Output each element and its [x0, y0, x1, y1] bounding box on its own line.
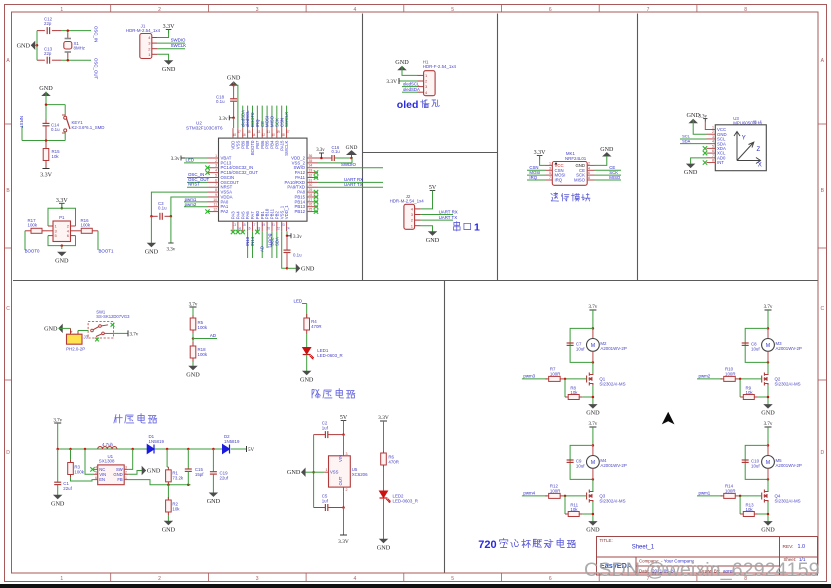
svg-text:P1: P1 [59, 215, 65, 220]
resistor R3 [70, 449, 72, 462]
svg-text:13: 13 [232, 223, 236, 227]
svg-text:27: 27 [309, 198, 313, 202]
svg-text:45: 45 [247, 130, 251, 134]
ground [603, 152, 610, 156]
crystal X1 [67, 33, 69, 39]
mosfet Q1 [592, 362, 594, 374]
node CE [595, 169, 622, 171]
mcu top net bus [242, 106, 244, 129]
section title boost circuit [114, 415, 122, 423]
svg-text:6: 6 [549, 576, 552, 582]
svg-text:3.3V: 3.3V [378, 415, 389, 421]
motor M5 [767, 445, 769, 455]
svg-text:37: 37 [286, 130, 290, 134]
svg-text:3.3V: 3.3V [163, 24, 176, 30]
power 3.3v flag [290, 233, 292, 238]
svg-text:Sheet_1: Sheet_1 [632, 545, 655, 551]
power 3.3v flag on VBAT [181, 157, 208, 159]
svg-text:GND: GND [346, 145, 358, 151]
wire SW to rail [128, 449, 132, 469]
svg-text:SWCLK: SWCLK [171, 43, 187, 48]
capacitor C12 [37, 30, 45, 32]
wire [767, 385, 769, 404]
ground [303, 371, 310, 375]
node SCL [680, 138, 707, 140]
wire [592, 310, 594, 328]
svg-text:MISO: MISO [574, 178, 586, 183]
svg-text:GND: GND [145, 248, 159, 255]
svg-text:10uf: 10uf [751, 346, 760, 351]
svg-text:6: 6 [588, 171, 590, 175]
svg-text:pwm2: pwm2 [699, 374, 711, 379]
wire [767, 502, 769, 521]
wire VSS_2 [318, 158, 352, 163]
svg-text:Z: Z [757, 147, 761, 153]
svg-text:SI2302AI-MS: SI2302AI-MS [775, 498, 801, 503]
svg-text:10k: 10k [172, 506, 180, 511]
svg-text:5: 5 [215, 173, 217, 177]
ground [192, 362, 194, 366]
svg-text:0.1u: 0.1u [158, 206, 167, 211]
power 5V [430, 190, 436, 192]
svg-text:SWDIO: SWDIO [171, 38, 186, 43]
svg-text:OSC_IN: OSC_IN [94, 26, 99, 42]
svg-text:34: 34 [309, 164, 313, 168]
svg-text:UART TX: UART TX [344, 182, 363, 187]
wire VDD_1 decoupling [286, 231, 288, 236]
svg-text:HDR-F-2.54_1x4: HDR-F-2.54_1x4 [423, 64, 457, 69]
svg-text:IRQ: IRQ [529, 175, 537, 180]
wire [48, 236, 76, 246]
wire main rail [58, 448, 148, 450]
svg-text:7: 7 [215, 183, 217, 187]
no-connect PA3 PA4 PA5 PB0 [231, 230, 235, 234]
mosfet Q4 [767, 479, 769, 491]
resistor R2 [167, 485, 169, 500]
svg-text:M: M [591, 460, 595, 466]
svg-text:470R: 470R [388, 459, 399, 464]
wire VDDA [171, 197, 208, 216]
ground [54, 495, 61, 499]
svg-text:HDR-M-2.54_1x4: HDR-M-2.54_1x4 [126, 28, 161, 33]
svg-text:M: M [766, 343, 770, 349]
wire [45, 92, 47, 105]
svg-text:C: C [820, 306, 824, 312]
resistor R17 [25, 230, 31, 232]
svg-text:25: 25 [309, 208, 313, 212]
wire [157, 30, 169, 38]
power 5V [341, 420, 347, 422]
svg-text:SWCLK: SWCLK [284, 140, 289, 155]
svg-text:VIN: VIN [338, 455, 343, 462]
svg-text:2: 2 [158, 576, 161, 582]
svg-text:EN: EN [99, 477, 105, 482]
svg-text:10uf: 10uf [751, 463, 760, 468]
svg-text:GND: GND [162, 66, 176, 73]
svg-text:100R: 100R [725, 371, 736, 376]
svg-text:SI2302AI-MS: SI2302AI-MS [599, 381, 625, 386]
svg-text:100k: 100k [198, 325, 208, 330]
svg-text:0.1u: 0.1u [332, 149, 341, 154]
svg-text:46: 46 [242, 133, 246, 137]
regulator U5 XC6206 [329, 456, 351, 487]
section title transparent module [551, 193, 559, 202]
svg-text:6: 6 [215, 178, 217, 182]
svg-text:22uf: 22uf [220, 475, 229, 480]
svg-text:3.3v: 3.3v [293, 235, 302, 240]
svg-text:pwm2: pwm2 [185, 202, 197, 207]
svg-text:UART TX: UART TX [439, 215, 458, 220]
svg-text:K2-3.6*6.1_SMD: K2-3.6*6.1_SMD [72, 125, 105, 130]
svg-text:4: 4 [712, 140, 714, 144]
svg-text:GND: GND [227, 75, 241, 82]
svg-text:XC6206: XC6206 [352, 472, 368, 477]
svg-text:3: 3 [712, 135, 714, 139]
svg-text:SI2302AI-MS: SI2302AI-MS [775, 381, 801, 386]
svg-text:LED-0603_R: LED-0603_R [393, 498, 418, 503]
svg-text:26: 26 [309, 203, 313, 207]
svg-text:32: 32 [309, 173, 313, 177]
wire [306, 334, 308, 347]
svg-text:41: 41 [267, 130, 271, 134]
svg-text:1: 1 [125, 476, 127, 480]
svg-text:22: 22 [276, 227, 280, 231]
section divider lines [362, 14, 364, 281]
svg-text:5V: 5V [248, 448, 255, 453]
svg-text:17: 17 [252, 223, 256, 227]
svg-text:1: 1 [712, 126, 714, 130]
svg-text:LED: LED [294, 299, 303, 304]
svg-text:4: 4 [354, 576, 357, 582]
svg-text:PA2: PA2 [221, 209, 229, 214]
svg-text:HDR-M-2.54_1x4: HDR-M-2.54_1x4 [390, 199, 425, 204]
node IN13 IN14 [247, 231, 249, 258]
svg-text:GND: GND [600, 147, 614, 153]
wire [157, 54, 169, 60]
motor M4 [592, 445, 594, 455]
svg-text:31: 31 [309, 178, 313, 182]
wire [592, 502, 594, 521]
ground [167, 515, 169, 521]
svg-text:GND: GND [39, 85, 53, 92]
svg-text:1: 1 [326, 468, 328, 472]
ground [764, 522, 771, 526]
svg-text:3: 3 [346, 452, 348, 456]
svg-text:SWDIO: SWDIO [341, 162, 356, 167]
svg-text:GND: GND [287, 469, 301, 476]
ground [165, 61, 172, 65]
no-connect PA2 [205, 209, 209, 213]
svg-text:15pf: 15pf [195, 472, 204, 477]
node oledSDA [402, 91, 418, 93]
svg-text:12: 12 [213, 208, 217, 212]
node pwm2 [184, 206, 208, 208]
wire [767, 310, 769, 328]
resistor R18 [192, 342, 194, 346]
svg-text:SDA: SDA [274, 237, 279, 246]
node MISO [595, 179, 622, 181]
node CSN [527, 169, 546, 171]
svg-text:2: 2 [712, 130, 714, 134]
wire R3 to EN [71, 477, 94, 481]
axis drawing XYZ [734, 132, 761, 164]
capacitor C8 [742, 342, 749, 344]
power 5V flag [246, 446, 248, 452]
svg-text:7: 7 [647, 7, 650, 13]
svg-text:19: 19 [262, 223, 266, 227]
wire [343, 421, 345, 435]
diode LED2 [380, 491, 388, 498]
wire [383, 467, 385, 491]
svg-text:TITLE:: TITLE: [600, 538, 613, 543]
svg-text:+: + [70, 329, 73, 334]
power 3.3V [43, 168, 50, 170]
svg-text:3.7v: 3.7v [764, 305, 773, 310]
power 3.3V [166, 29, 172, 31]
svg-text:3.3V: 3.3V [338, 539, 349, 545]
svg-text:10uf: 10uf [576, 346, 585, 351]
node LED [184, 162, 208, 164]
svg-text:3.3V: 3.3V [40, 173, 53, 179]
capacitor C7 [567, 342, 574, 344]
wire AD0 to ground [691, 158, 707, 164]
svg-text:LED: LED [186, 158, 195, 163]
svg-text:3.3v: 3.3v [171, 157, 180, 162]
svg-text:A2001WV-2P: A2001WV-2P [776, 346, 802, 351]
svg-text:GND: GND [55, 257, 69, 264]
svg-text:100k: 100k [28, 222, 38, 227]
node pwm1 [184, 201, 208, 203]
svg-text:5V: 5V [429, 185, 437, 191]
node UART TX [421, 219, 453, 221]
no-connect PA8 PB15 PB14 PB13 PB12 [314, 190, 318, 194]
svg-text:1: 1 [549, 161, 551, 165]
svg-text:22uf: 22uf [63, 486, 72, 491]
svg-text:3.3v: 3.3v [219, 117, 228, 122]
capacitor C10 [742, 459, 749, 461]
svg-text:M: M [591, 343, 595, 349]
ground [398, 66, 405, 70]
node IRQ [527, 179, 546, 181]
svg-text:73.2k: 73.2k [172, 475, 184, 480]
svg-text:4: 4 [215, 169, 217, 173]
svg-text:GND: GND [17, 42, 31, 49]
svg-text:21: 21 [271, 223, 275, 227]
svg-text:INT: INT [717, 160, 724, 165]
wire [402, 66, 418, 75]
svg-text:3.7v: 3.7v [764, 422, 773, 427]
svg-text:D: D [820, 450, 824, 456]
svg-text:A2001WV-2P: A2001WV-2P [600, 346, 626, 351]
wire [59, 327, 71, 329]
svg-text:720: 720 [478, 539, 496, 551]
svg-text:48: 48 [232, 133, 236, 137]
wire VSS to gnd [234, 85, 238, 128]
svg-text:1: 1 [60, 576, 63, 582]
power 3.3V [59, 202, 65, 204]
svg-text:100k: 100k [198, 352, 208, 357]
svg-text:X: X [758, 163, 762, 169]
svg-text:1N5819: 1N5819 [224, 439, 240, 444]
node BOOT1 [266, 231, 268, 248]
power 3.7v [113, 332, 128, 334]
svg-text:GND: GND [684, 169, 698, 176]
mosfet Q2 [767, 362, 769, 374]
ground [150, 216, 152, 243]
motor M2 [592, 328, 594, 338]
svg-text:100R: 100R [550, 488, 561, 493]
svg-text:SX1308: SX1308 [99, 459, 115, 464]
power 3.3V [343, 508, 345, 536]
svg-text:23: 23 [281, 223, 285, 227]
svg-text:1.0: 1.0 [798, 544, 806, 550]
node SCK [595, 174, 622, 176]
svg-text:15: 15 [242, 223, 246, 227]
capacitor C15 [187, 449, 189, 469]
ground [301, 471, 313, 473]
node MOSI [527, 174, 546, 176]
svg-text:GND: GND [44, 325, 58, 332]
svg-text:oledSCL: oledSCL [403, 81, 420, 86]
svg-text:6: 6 [712, 149, 714, 153]
ground [380, 539, 387, 543]
ground [429, 232, 436, 236]
svg-text:3.7v: 3.7v [130, 332, 139, 337]
svg-text:5: 5 [95, 471, 97, 475]
svg-text:3.7v: 3.7v [589, 305, 598, 310]
ground [764, 405, 771, 409]
svg-text:2: 2 [588, 161, 590, 165]
svg-text:8: 8 [588, 176, 590, 180]
wire [767, 427, 769, 445]
wire [693, 119, 706, 134]
cursor arrow [662, 412, 675, 425]
no-connect NC [90, 467, 94, 471]
svg-text:40: 40 [271, 133, 275, 137]
ground flag at U1 GND [128, 471, 142, 475]
svg-text:2: 2 [125, 471, 127, 475]
capacitor C18 on VDD [233, 85, 235, 99]
svg-text:22p: 22p [44, 21, 52, 26]
power 3.3v flag [232, 117, 235, 120]
svg-text:0.1u: 0.1u [216, 99, 225, 104]
svg-text:3.3v: 3.3v [167, 248, 176, 253]
svg-text:3: 3 [256, 576, 259, 582]
svg-text:pwm1: pwm1 [699, 491, 711, 496]
node OSC_IN wire [187, 176, 208, 178]
svg-text:30: 30 [309, 183, 313, 187]
wire [24, 231, 26, 250]
svg-text:SI2302AI-MS: SI2302AI-MS [599, 498, 625, 503]
node OSC_OUT wire [187, 181, 208, 183]
wire [421, 191, 433, 209]
svg-text:33: 33 [309, 169, 313, 173]
no-connect PA12 PA11 [314, 170, 318, 174]
motor M3 [767, 328, 769, 338]
section title serial 1 [453, 222, 460, 232]
capacitor C13 [37, 59, 45, 61]
ground [687, 164, 694, 168]
svg-text:M: M [766, 460, 770, 466]
svg-text:PB12: PB12 [294, 209, 305, 214]
capacitor C16 [331, 155, 333, 161]
svg-text:NRF24L01: NRF24L01 [565, 156, 587, 161]
svg-text:CSDN @weixin_62924159: CSDN @weixin_62924159 [584, 559, 820, 581]
ground [31, 44, 37, 46]
no-connect marks PC14 PC15 [205, 166, 209, 170]
svg-text:GND: GND [113, 472, 122, 477]
svg-text:VIN: VIN [99, 472, 106, 477]
ground [230, 82, 237, 86]
svg-text:28: 28 [309, 193, 313, 197]
pushbutton KEY1 [64, 116, 67, 119]
svg-text:IN14: IN14 [250, 236, 255, 246]
ground [210, 493, 217, 497]
node UART RX [318, 181, 383, 183]
svg-text:2: 2 [346, 488, 348, 492]
capacitor C14 [45, 120, 47, 124]
svg-text:11: 11 [213, 203, 217, 207]
svg-text:2: 2 [158, 7, 161, 13]
svg-text:D: D [6, 450, 10, 456]
resistor R5 [192, 315, 194, 318]
section title buck circuit [312, 390, 320, 398]
svg-text:1N5819: 1N5819 [149, 439, 165, 444]
svg-text:GND: GND [186, 371, 200, 378]
svg-text:35: 35 [309, 159, 313, 163]
mcu U2 STM32F103C8T6 [219, 138, 308, 221]
svg-text:GND: GND [586, 410, 600, 417]
svg-text:NRST: NRST [188, 182, 200, 187]
svg-text:8: 8 [744, 7, 747, 13]
node NRST wire [187, 186, 208, 188]
wire [595, 156, 607, 165]
wire [233, 82, 235, 86]
svg-text:1: 1 [60, 7, 63, 13]
wire [314, 471, 325, 473]
svg-text:5: 5 [712, 144, 714, 148]
svg-text:SWCLK: SWCLK [284, 112, 289, 127]
svg-text:10uf: 10uf [576, 463, 585, 468]
node SDA [680, 143, 707, 145]
svg-text:3: 3 [256, 7, 259, 13]
svg-text:GND: GND [301, 265, 315, 272]
svg-text:16: 16 [247, 227, 251, 231]
svg-text:100R: 100R [550, 371, 561, 376]
svg-text:36: 36 [309, 154, 313, 158]
svg-text:0.1u: 0.1u [293, 253, 302, 258]
ground [589, 405, 596, 409]
svg-text:BOOT1: BOOT1 [99, 248, 114, 253]
svg-text:470R: 470R [311, 324, 322, 329]
svg-text:VSS: VSS [330, 470, 339, 475]
svg-text:GND: GND [147, 468, 161, 475]
svg-text:20: 20 [267, 227, 271, 231]
svg-text:100k: 100k [74, 469, 84, 474]
wire [540, 156, 546, 166]
svg-text:oled: oled [397, 99, 419, 111]
ground [59, 325, 63, 332]
svg-text:GND: GND [761, 410, 775, 417]
mosfet Q3 [592, 479, 594, 491]
svg-text:4: 4 [588, 166, 590, 170]
svg-text:GND: GND [162, 526, 176, 533]
svg-text:3.7v: 3.7v [589, 422, 598, 427]
svg-text:SS-SK12D07VG3: SS-SK12D07VG3 [96, 314, 130, 319]
wire VSS_1 [282, 231, 287, 268]
power 3.3v [170, 216, 172, 243]
svg-text:BOOT0: BOOT0 [25, 248, 40, 253]
